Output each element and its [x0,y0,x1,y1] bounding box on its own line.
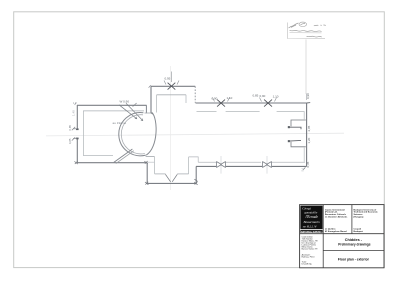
facade door jamb north stone [288,126,290,128]
title block divider vertical upper [351,205,353,234]
svg-text:Rabnau, Péter: Rabnau, Péter [302,256,315,259]
nave south wall inner seg2 [226,161,261,163]
svg-text:1,20: 1,20 [307,137,311,143]
right cell org text [354,208,379,218]
svg-text:M. Strangelove Marcel: M. Strangelove Marcel [325,230,347,233]
north transept inner north wall [157,94,186,96]
svg-text:1,40: 1,40 [72,110,76,116]
title block divider horizontal mid [300,233,384,235]
handwritten note box top-right [288,23,326,39]
facade bottom corner tick [303,167,305,169]
handwritten scribble line 3 [307,35,322,38]
left column team lines [302,260,313,265]
rotunda main circle outer arc [119,113,146,156]
title block divider vertical full [322,205,324,268]
facade door jamb north [291,120,306,126]
svg-text:Floor plan - exterior: Floor plan - exterior [338,257,370,261]
choir south wall outer [77,162,147,164]
svg-text:0,90: 0,90 [306,93,310,99]
title block outer rect [300,205,384,268]
nave north window 1 ticks [213,98,230,102]
nave north wall outer [196,102,307,104]
svg-text:l'Ecnude: l'Ecnude [306,215,319,219]
logo black strip [300,230,322,233]
nave south wall inner seg1 [198,161,216,163]
svg-text:gonnichllv: gonnichllv [305,210,318,214]
right cell contact text [354,229,364,233]
choir north wall outer [77,104,147,106]
annotation leader arrow 1 [119,105,137,119]
north transept window X symbol [168,83,176,90]
svg-text:Baross Tamás '99: Baross Tamás '99 [302,249,319,251]
svg-text:1,10: 1,10 [227,96,233,100]
leader vertical line from note to facade [305,40,307,95]
middle cell org text [325,208,348,218]
choir south-west corner tick [74,161,77,164]
facade inner face upper (faint) [303,112,305,119]
nave north wall inner seg2 [226,111,260,113]
svg-text:0,85: 0,85 [253,93,259,97]
svg-text:W 0,90: W 0,90 [120,100,130,104]
nave south wall inner seg3 [272,161,305,163]
choir to transept inner ledge (faint) [148,161,155,163]
svg-text:1,10: 1,10 [273,95,279,99]
north transept north wall [151,85,195,87]
south transept corner tick west-bottom [145,182,148,185]
svg-text:0,95: 0,95 [165,77,171,81]
left column address lines [302,236,319,251]
diagonal wall to south (outer) [114,149,133,162]
choir west wall outer lower seg [76,138,78,163]
facade door jamb south [291,142,306,147]
facade top corner tick [307,102,311,104]
nave north wall inner seg1 [197,111,217,113]
handwritten scribble line 2 [290,30,322,33]
svg-text:sur M.L.L. W: sur M.L.L. W [303,225,318,228]
north transept east wall (dashed) [194,86,196,103]
vertical axis centerline [170,66,172,190]
south transept inner south wall west seg [155,173,166,175]
nave north window 1 X symbol [217,100,225,107]
svg-text:Beaucmarts: Beaucmarts [304,220,321,224]
facade inner face lower (faint) [303,148,305,162]
svg-text:0,90: 0,90 [260,94,266,98]
left column assistant lines [302,254,315,259]
south transept west wall [146,163,148,184]
south transept east wall [195,166,197,183]
choir corner tick [75,103,77,105]
nave south wall outer seg2 [225,165,262,167]
svg-text:Chiddes -: Chiddes - [345,238,363,242]
rotunda to south-transept connect line [146,155,155,157]
choir south wall inner [83,155,113,157]
svg-text:0,85: 0,85 [68,125,72,131]
choir west window jamb dot lower [76,138,79,140]
svg-text:0,85: 0,85 [68,138,72,144]
svg-text:en Chantiers Bénévols: en Chantiers Bénévols [325,215,348,218]
rotunda main circle inner arc [121,115,144,154]
facade top extension tick [306,94,308,101]
south transept corner tick east-bottom [194,182,197,185]
facade door jamb south sill [289,139,301,142]
svg-text:0,90: 0,90 [212,97,218,101]
nave south-west corner tick [194,179,197,181]
facade door jamb north sill [289,127,301,129]
nave south window 1 (splayed reveal) [216,162,225,168]
svg-text:Istvánffi Gy.: Istvánffi Gy. [302,262,313,265]
choir north wall inner [83,110,144,112]
rotunda east arc outer [146,112,156,155]
annotation leader arrow 2 [126,103,143,120]
north transept inner east wall [185,95,187,103]
rotunda east arc corner tick [151,113,153,115]
choir west window jamb dot upper [76,128,79,130]
rotunda to north-transept connect line [145,112,152,114]
nave south window 2 (splayed reveal) [262,162,271,168]
nave north window 2 ticks [260,98,277,102]
project title text [338,238,370,247]
rotunda wall stub from choir north wall [145,105,147,113]
nave south window 2 centerline (faint) [266,156,268,174]
south transept door V symbol [165,174,177,182]
handwritten scribble line 1 [289,22,326,28]
facade door jamb south stone [288,140,290,142]
west wall axial window tick upper [72,127,77,130]
diagonal wall to south (inner) [116,151,134,164]
south transept inner west wall [154,157,156,174]
svg-text:au 19ème: au 19ème [113,121,127,125]
horizontal axis centerline [46,133,344,136]
title block divider horizontal lower [323,250,384,252]
north transept inner west wall [156,95,158,113]
south transept to nave inner connect [189,157,199,162]
annotation tick slash [133,103,137,107]
nave north window 2 X symbol [264,100,272,107]
nave south wall outer seg3 [271,165,306,167]
svg-text:2,05: 2,05 [307,125,311,131]
nave north wall inner seg3 [277,111,305,113]
west wall axial window tick lower [72,137,77,140]
north transept corner tick [149,85,151,88]
choir west wall outer upper seg [76,105,78,129]
facade wall outer [306,103,308,166]
south transept south wall [147,182,196,184]
north transept west wall [150,86,152,113]
svg-text:NATIONAL SURVEY: NATIONAL SURVEY [301,230,322,233]
svg-text:Budapest: Budapest [354,230,364,233]
choir west wall inner [82,111,84,156]
north transept window ticks [164,72,179,85]
south transept inner south wall east seg [177,173,188,175]
nave south wall outer seg1 [196,165,217,167]
logo black box [300,206,322,230]
middle cell contact text [325,229,347,233]
south transept inner east wall [188,157,190,174]
svg-text:(Hungary): (Hungary) [354,215,364,218]
south transept corner tick west-top [144,161,147,164]
nave south window 1 centerline (faint) [220,156,222,174]
logo script text [302,207,320,229]
svg-text:Preliminary drawings: Preliminary drawings [338,243,370,247]
